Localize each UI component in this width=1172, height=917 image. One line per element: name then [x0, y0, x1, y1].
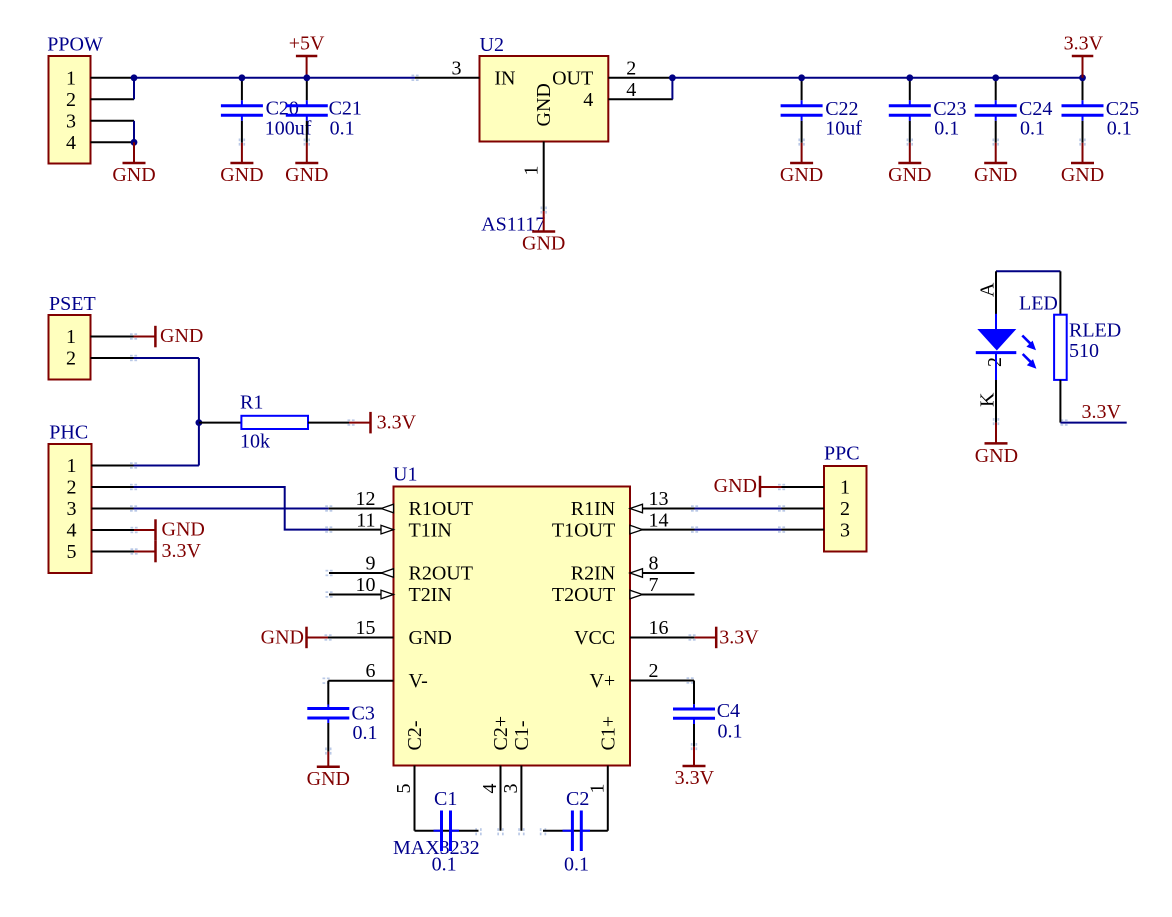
svg-text:0.1: 0.1	[432, 854, 457, 876]
svg-text:3.3V: 3.3V	[162, 540, 202, 562]
svg-text:OUT: OUT	[552, 67, 593, 89]
capacitor C23 0.1	[889, 78, 967, 143]
svg-text:1: 1	[586, 784, 608, 794]
svg-text:4: 4	[583, 89, 593, 111]
svg-text:13: 13	[649, 488, 669, 510]
pin 11 of U1	[329, 510, 394, 534]
svg-text:3.3V: 3.3V	[1064, 33, 1104, 55]
svg-text:GND: GND	[888, 164, 931, 186]
svg-text:0.1: 0.1	[1020, 118, 1045, 140]
svg-text:9: 9	[366, 553, 376, 575]
ground GND at pin15	[261, 627, 328, 649]
svg-text:0.1: 0.1	[934, 118, 959, 140]
wire 3.3V rail right	[672, 77, 1082, 79]
ground GND at PSET pin1	[134, 325, 204, 347]
ground GND under C21	[285, 143, 328, 186]
ground GND under C3	[307, 752, 350, 790]
ground GND under C22	[780, 143, 823, 186]
wire PPOW pin4 stub	[91, 141, 135, 143]
wire PHC pin2 stub	[92, 486, 134, 488]
power 3.3V at R1	[349, 412, 417, 434]
svg-text:GND: GND	[162, 519, 205, 541]
wire PPOW pin2 stub	[91, 98, 135, 100]
svg-text:R1: R1	[240, 392, 263, 414]
wire PHC pin1 stub	[92, 465, 134, 467]
svg-text:2: 2	[840, 498, 850, 520]
wire pin4 up to out node	[671, 78, 673, 100]
power 3.3V at RLED	[1060, 401, 1126, 423]
svg-text:RLED: RLED	[1069, 320, 1121, 342]
svg-text:0.1: 0.1	[564, 854, 589, 876]
svg-text:C2: C2	[566, 788, 589, 810]
capacitor C20 100uf	[221, 78, 312, 143]
svg-text:GND: GND	[1061, 164, 1104, 186]
svg-text:C21: C21	[329, 98, 362, 120]
svg-text:3.3V: 3.3V	[719, 627, 759, 649]
pin 13 of U1	[630, 488, 695, 513]
svg-text:GND: GND	[220, 164, 263, 186]
op-amp U1 MAX3232 body	[393, 464, 630, 860]
pin 3 of U1	[500, 766, 522, 831]
capacitor C1 0.1	[432, 788, 459, 876]
svg-text:10uf: 10uf	[825, 118, 862, 140]
svg-text:PPC: PPC	[824, 443, 860, 465]
svg-text:4: 4	[479, 784, 501, 794]
svg-text:3: 3	[840, 520, 850, 542]
wire PPC pin1 stub	[782, 486, 825, 488]
svg-text:R2OUT: R2OUT	[409, 563, 473, 585]
connector PPOW	[47, 34, 103, 164]
pin 15 of U1	[328, 617, 394, 639]
ground GND under U2	[522, 211, 565, 255]
wire C1 bottom	[415, 830, 479, 832]
wire PSET pin2 to node	[134, 357, 199, 359]
wire V- down to C3	[327, 681, 329, 705]
ground GND under C23	[888, 143, 931, 186]
svg-text:100uf: 100uf	[265, 118, 312, 140]
svg-text:10k: 10k	[240, 431, 270, 453]
wire PHC pin3 stub	[92, 508, 134, 510]
svg-text:T1IN: T1IN	[409, 520, 452, 542]
svg-text:1: 1	[840, 477, 850, 499]
svg-text:3.3V: 3.3V	[675, 767, 715, 789]
svg-text:GND: GND	[714, 475, 757, 497]
svg-text:GND: GND	[285, 164, 328, 186]
pin 9 of U1	[329, 553, 394, 578]
capacitor C4 0.1	[673, 700, 743, 747]
svg-text:15: 15	[356, 617, 376, 639]
connector PSET	[49, 293, 96, 380]
svg-text:1: 1	[66, 67, 76, 89]
svg-text:0.1: 0.1	[718, 721, 743, 743]
pin 2 of U2	[608, 57, 673, 79]
ground GND at PHC pin4	[134, 519, 205, 541]
wire PSET pin2 stub	[91, 357, 134, 359]
resistor RLED 510	[1054, 271, 1121, 422]
wire PPOW pin1 stub	[91, 77, 135, 79]
svg-text:5: 5	[393, 784, 415, 794]
node junction at C21	[303, 74, 310, 81]
svg-text:LED: LED	[1019, 293, 1058, 315]
svg-text:T2IN: T2IN	[409, 584, 452, 606]
LED D? anode lead	[977, 271, 999, 316]
svg-text:GND: GND	[160, 325, 203, 347]
capacitor C24 0.1	[975, 78, 1053, 143]
LED light arrow 2	[1023, 354, 1037, 369]
ground GND at PPC pin1	[714, 475, 782, 497]
wire PPOW pin3 stub	[91, 120, 135, 122]
wire PSET pin1 stub	[91, 336, 134, 338]
wire vertical net PSET2-PHC1	[198, 358, 200, 466]
svg-text:3: 3	[66, 110, 76, 132]
svg-text:PPOW: PPOW	[47, 34, 103, 56]
wire +5V rail left	[134, 77, 415, 79]
wire PPC pin2 stub	[782, 508, 825, 510]
svg-text:GND: GND	[975, 445, 1018, 467]
svg-text:2: 2	[649, 660, 659, 682]
LED cathode lead	[977, 380, 999, 423]
pin 4 of U1	[479, 766, 501, 831]
svg-text:16: 16	[649, 617, 669, 639]
pin 7 of U1	[630, 574, 695, 599]
svg-text:2: 2	[67, 477, 77, 499]
svg-text:3.3V: 3.3V	[377, 412, 417, 434]
svg-text:IN: IN	[494, 67, 515, 89]
capacitor C3 0.1	[307, 703, 377, 752]
pin 3 of U2	[415, 57, 480, 79]
svg-text:5: 5	[67, 541, 77, 563]
wire PHC pin5 stub	[92, 551, 135, 553]
ground GND under C25	[1061, 143, 1104, 186]
node junction at PPOW pin4	[131, 139, 138, 146]
svg-text:7: 7	[649, 574, 659, 596]
pin 12 of U1	[329, 488, 394, 513]
svg-text:R1IN: R1IN	[571, 498, 615, 520]
svg-text:GND: GND	[261, 627, 304, 649]
LED light arrow 1	[1022, 336, 1036, 351]
svg-text:1: 1	[521, 166, 543, 176]
svg-text:3: 3	[500, 784, 522, 794]
svg-text:4: 4	[66, 132, 76, 154]
svg-text:GND: GND	[533, 83, 555, 126]
resistor R1 10k	[199, 392, 349, 453]
svg-text:1: 1	[66, 326, 76, 348]
regulator U2 AS1117	[480, 34, 609, 236]
ground GND under LED	[975, 423, 1018, 467]
wire PHC pin1 net	[134, 465, 199, 467]
svg-text:T2OUT: T2OUT	[552, 584, 615, 606]
wire end markers	[130, 75, 1086, 836]
capacitor C25 0.1	[1062, 78, 1140, 143]
svg-text:2: 2	[626, 57, 636, 79]
node junction at C24	[992, 74, 999, 81]
power 3.3V at pin16	[695, 627, 760, 649]
svg-text:14: 14	[649, 510, 669, 532]
connector PHC	[49, 422, 92, 574]
power 3.3V top right	[1064, 33, 1104, 78]
svg-text:3: 3	[452, 57, 462, 79]
power +5V	[289, 33, 325, 78]
wire PHC pin3 to R1OUT	[134, 508, 329, 510]
wire PHC pin4 stub	[92, 529, 135, 531]
svg-text:GND: GND	[112, 164, 155, 186]
svg-text:C1-: C1-	[511, 721, 533, 751]
pin 14 of U1	[630, 510, 695, 534]
node junction at U2 output	[669, 74, 676, 81]
pin 16 of U1	[630, 617, 695, 639]
pin 10 of U1	[329, 574, 394, 599]
svg-text:3: 3	[67, 498, 77, 520]
wire LED top	[996, 270, 1060, 272]
svg-text:GND: GND	[974, 164, 1017, 186]
svg-text:0.1: 0.1	[353, 722, 378, 744]
svg-text:8: 8	[649, 553, 659, 575]
svg-text:1: 1	[67, 455, 77, 477]
svg-text:GND: GND	[409, 627, 452, 649]
ground GND under C20	[220, 143, 263, 186]
pin 8 of U1	[630, 553, 695, 578]
svg-text:11: 11	[356, 510, 375, 532]
wire PHC pin2 to T1IN	[134, 487, 329, 530]
svg-text:0.1: 0.1	[1107, 118, 1132, 140]
capacitor C22 10uf	[781, 78, 863, 143]
pin 1 of U1	[586, 766, 608, 831]
svg-text:3.3V: 3.3V	[1082, 401, 1122, 423]
wire C2 bottom	[543, 830, 608, 832]
node junction at C20	[239, 74, 246, 81]
svg-text:2: 2	[66, 348, 76, 370]
pin 4 of U2	[608, 79, 673, 101]
svg-text:C1+: C1+	[597, 716, 619, 751]
power 3.3V at PHC pin5	[134, 540, 202, 562]
connector PPC	[824, 443, 867, 552]
wire net to PPC pin2	[695, 508, 782, 510]
LED symbol	[976, 293, 1058, 381]
svg-text:C4: C4	[717, 700, 740, 722]
capacitor C2 0.1	[563, 788, 591, 876]
svg-text:VCC: VCC	[574, 627, 615, 649]
svg-text:C1: C1	[434, 788, 457, 810]
ground GND under PPOW	[112, 142, 155, 186]
wire V+ down to C4	[693, 681, 695, 705]
svg-text:V-: V-	[409, 670, 428, 692]
svg-text:C2-: C2-	[404, 721, 426, 751]
svg-text:4: 4	[67, 520, 77, 542]
svg-text:U1: U1	[393, 464, 417, 486]
svg-text:510: 510	[1069, 340, 1099, 362]
svg-text:12: 12	[356, 488, 376, 510]
node junction at PPOW pin1	[131, 74, 138, 81]
svg-text:C2+: C2+	[490, 716, 512, 751]
ground GND under C24	[974, 143, 1017, 186]
wire pin3-pin4 link	[133, 121, 135, 143]
wire net to PPC pin3	[695, 529, 782, 531]
node junction at C23	[906, 74, 913, 81]
wire PPC pin3 stub	[782, 529, 825, 531]
svg-text:V+: V+	[589, 670, 615, 692]
svg-text:PSET: PSET	[49, 293, 96, 315]
svg-text:10: 10	[356, 574, 376, 596]
node junction at R1 tap	[196, 419, 203, 426]
svg-text:6: 6	[366, 660, 376, 682]
svg-text:PHC: PHC	[49, 422, 88, 444]
svg-text:2: 2	[66, 89, 76, 111]
power 3.3V under C4	[675, 747, 715, 789]
svg-text:4: 4	[626, 79, 636, 101]
capacitor C21 0.1	[286, 78, 362, 143]
svg-text:GND: GND	[307, 768, 350, 790]
svg-text:T1OUT: T1OUT	[552, 520, 615, 542]
svg-text:U2: U2	[480, 34, 504, 56]
pin 6 of U1	[328, 660, 393, 682]
pin 2 of U1	[630, 660, 694, 682]
svg-text:GND: GND	[780, 164, 823, 186]
node junction at C25	[1079, 74, 1086, 81]
wire pin1-pin2 link	[133, 78, 135, 100]
node junction at C22	[798, 74, 805, 81]
svg-text:+5V: +5V	[289, 33, 325, 55]
pin 1 of U2	[521, 142, 544, 212]
svg-text:R1OUT: R1OUT	[409, 498, 473, 520]
pin 5 of U1	[393, 766, 415, 831]
svg-text:0.1: 0.1	[330, 118, 355, 140]
svg-text:GND: GND	[522, 233, 565, 255]
svg-text:R2IN: R2IN	[571, 563, 615, 585]
